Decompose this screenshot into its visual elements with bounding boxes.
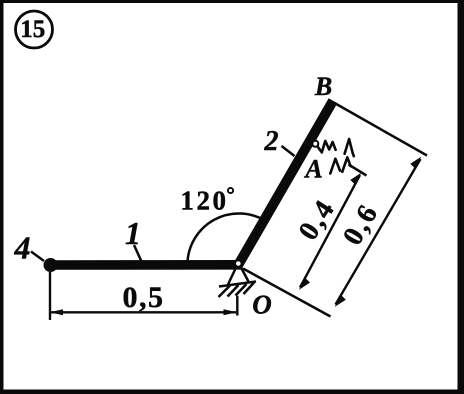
svg-text:B: B xyxy=(314,72,332,101)
svg-text:120: 120 xyxy=(180,186,228,216)
svg-text:0,5: 0,5 xyxy=(123,281,165,314)
svg-text:A: A xyxy=(303,155,322,184)
svg-text:15: 15 xyxy=(20,16,45,43)
svg-text:2: 2 xyxy=(264,126,279,157)
svg-text:4: 4 xyxy=(14,230,31,266)
svg-text:O: O xyxy=(252,290,272,320)
